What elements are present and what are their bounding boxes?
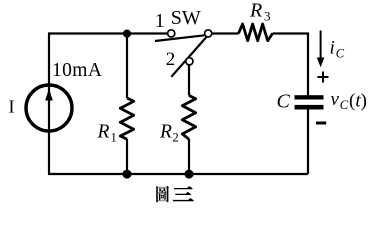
wire capacitor bottom to bottom rail [307, 109, 309, 174]
svg-text:SW: SW [171, 7, 201, 29]
wire left rail [48, 34, 50, 175]
switch SW lever toward 2 [171, 36, 207, 76]
svg-text:C: C [277, 91, 291, 113]
wire R1 branch top [126, 34, 128, 99]
wire bottom rail [48, 173, 308, 175]
svg-text:C: C [336, 47, 345, 61]
caption 三 (three) glyph [173, 187, 193, 201]
caption 圖 (figure) glyph [156, 186, 169, 203]
svg-text:i: i [330, 38, 335, 59]
svg-text:R: R [249, 0, 262, 22]
svg-text:I: I [9, 97, 15, 117]
switch SW lever toward 1 [155, 35, 204, 41]
wire R3 to top-right corner and down [273, 34, 308, 96]
current source I circle [26, 85, 72, 131]
switch contact 1 [168, 30, 175, 37]
minus sign [316, 122, 326, 125]
wire top rail left segment [48, 32, 168, 34]
svg-text:2: 2 [173, 131, 179, 145]
node dot bottom R1 [123, 170, 132, 179]
svg-text:C: C [340, 98, 349, 112]
svg-text:3: 3 [264, 9, 271, 24]
wire R1 branch bottom [126, 139, 128, 174]
wire pole to R3 [212, 32, 239, 34]
switch contact 2 [186, 58, 193, 65]
svg-text:1: 1 [111, 131, 117, 145]
svg-text:1: 1 [155, 10, 165, 32]
svg-text:(t): (t) [349, 90, 367, 111]
plus sign [318, 72, 329, 83]
capacitor C bottom plate [295, 105, 324, 110]
svg-text:v: v [331, 89, 340, 110]
wire R2 bottom [188, 139, 190, 174]
resistor R3 [239, 24, 273, 41]
resistor R1 [120, 98, 133, 139]
switch pole [205, 30, 212, 37]
wire contact2 to R2 [188, 65, 190, 96]
svg-text:R: R [159, 122, 172, 143]
capacitor C top plate [295, 95, 324, 99]
resistor R2 [182, 96, 195, 140]
svg-text:10mA: 10mA [52, 60, 102, 81]
iC current arrow [320, 31, 322, 59]
svg-text:R: R [97, 122, 110, 143]
current source arrowhead [45, 89, 53, 101]
node dot top (R1 / source junction) [123, 29, 131, 37]
node dot bottom R2 [185, 170, 194, 179]
svg-text:2: 2 [166, 49, 176, 70]
